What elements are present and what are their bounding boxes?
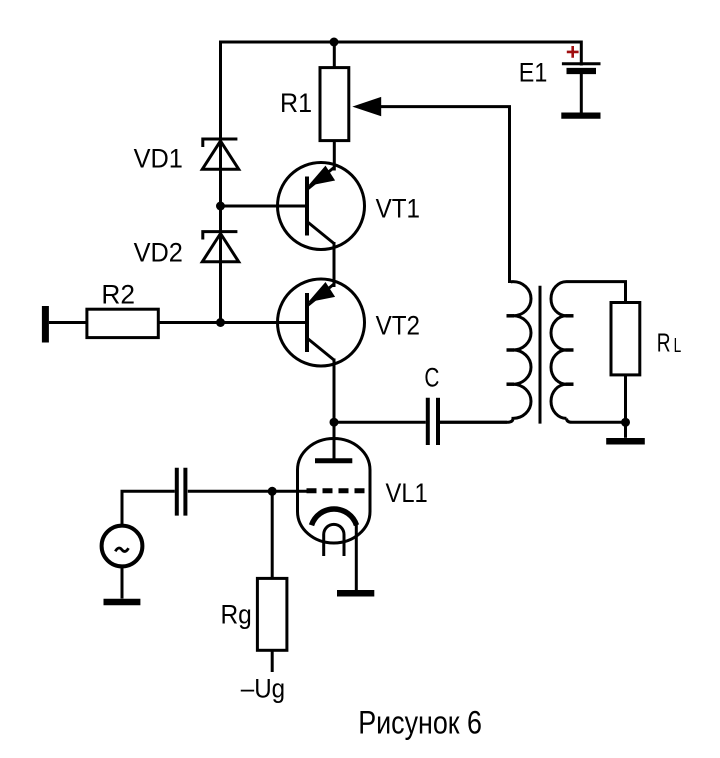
svg-text:VD1: VD1	[134, 143, 183, 173]
svg-text:VT1: VT1	[376, 194, 420, 224]
svg-text:R1: R1	[280, 88, 312, 118]
svg-text:R: R	[657, 328, 671, 358]
svg-text:VT2: VT2	[376, 310, 420, 340]
svg-text:VL1: VL1	[386, 478, 428, 508]
svg-text:Рисунок 6: Рисунок 6	[358, 705, 482, 741]
svg-text:E1: E1	[519, 58, 548, 88]
svg-text:Rg: Rg	[221, 600, 252, 630]
svg-text:R2: R2	[101, 280, 135, 310]
svg-text:VD2: VD2	[134, 238, 183, 268]
svg-text:L: L	[674, 335, 682, 357]
svg-text:C: C	[424, 363, 439, 393]
svg-text:–Ug: –Ug	[241, 673, 285, 703]
